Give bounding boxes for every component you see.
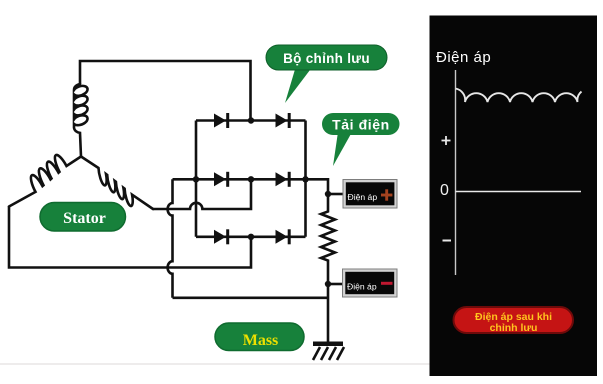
scope horizontal axis (0 line)	[456, 191, 582, 193]
scope vertical axis	[455, 70, 457, 275]
wire: + output node to box	[328, 193, 344, 196]
diode D2 (row1 right)	[276, 113, 291, 128]
resistor R load	[321, 194, 335, 284]
diode D1 (row1 left)	[214, 113, 229, 128]
svg-text:Tải điện: Tải điện	[332, 117, 390, 133]
diode D4 (row2 right)	[276, 172, 291, 187]
wire: right bus x=305.5 rows1-3	[304, 121, 307, 237]
svg-text:Mass: Mass	[243, 332, 279, 349]
svg-text:Điện áp: Điện áp	[347, 281, 377, 291]
ground symbol	[313, 344, 344, 360]
coil L2 (left stator winding)	[9, 155, 81, 207]
balloon: Bo chinh luu	[266, 45, 387, 103]
node: row2 right bus junction	[302, 176, 308, 182]
scope + label	[442, 136, 451, 145]
oscilloscope panel	[430, 16, 598, 377]
node: row2 left bus junction	[193, 176, 199, 182]
scope - label	[443, 240, 452, 242]
coil L3 (right stator winding)	[81, 157, 153, 210]
waveform: rectified ripple	[456, 89, 582, 103]
node: row1 midpoint junction	[248, 117, 254, 123]
label box: Dien ap -	[343, 269, 398, 297]
svg-text:Stator: Stator	[63, 210, 106, 227]
wire: ground stem	[327, 284, 330, 343]
wire: negative rail vertical x=172.5 with two hops	[168, 179, 173, 297]
wire: - output node to box	[328, 283, 343, 286]
svg-text:Điện áp: Điện áp	[436, 49, 491, 66]
wire: phase1 top wire from top coil to row1 midpoint	[80, 61, 251, 121]
faint separator line bottom	[0, 363, 430, 365]
coil L1 (top stator winding)	[74, 84, 88, 157]
node: row3 midpoint junction	[248, 234, 254, 240]
wire: left sub-bus x=196 rows1-3	[195, 121, 198, 237]
node: - output junction	[325, 281, 331, 287]
wire: rectifier row1 horizontal	[196, 119, 306, 122]
svg-text:Bộ chỉnh lưu: Bộ chỉnh lưu	[283, 51, 370, 66]
svg-text:Điện áp: Điện áp	[348, 192, 378, 202]
wire: rectifier row3 horizontal	[196, 236, 306, 239]
red pill: Dien ap sau khi chinh luu	[454, 307, 574, 333]
wire: phase3 left wire to row3 midpoint	[9, 207, 251, 268]
balloon: Tai dien	[322, 113, 400, 166]
svg-text:chỉnh lưu: chỉnh lưu	[490, 322, 538, 334]
svg-text:0: 0	[440, 182, 449, 199]
label box: Dien ap +	[343, 180, 397, 209]
diode D3 (row2 left)	[214, 172, 229, 187]
node: + output junction	[325, 191, 331, 197]
diode D5 (row3 left)	[214, 229, 229, 244]
label pill: Mass	[215, 323, 304, 351]
diode D6 (row3 right)	[276, 229, 291, 244]
node: row2 midpoint junction	[248, 176, 254, 182]
wire: rectifier row2 horizontal with output extension	[173, 179, 329, 194]
wire: phase2 right wire to row2 midpoint (hops over x=196 bus)	[153, 179, 251, 209]
label pill: Stator	[40, 203, 126, 232]
wire: negative rail bottom to ground node	[173, 296, 329, 299]
